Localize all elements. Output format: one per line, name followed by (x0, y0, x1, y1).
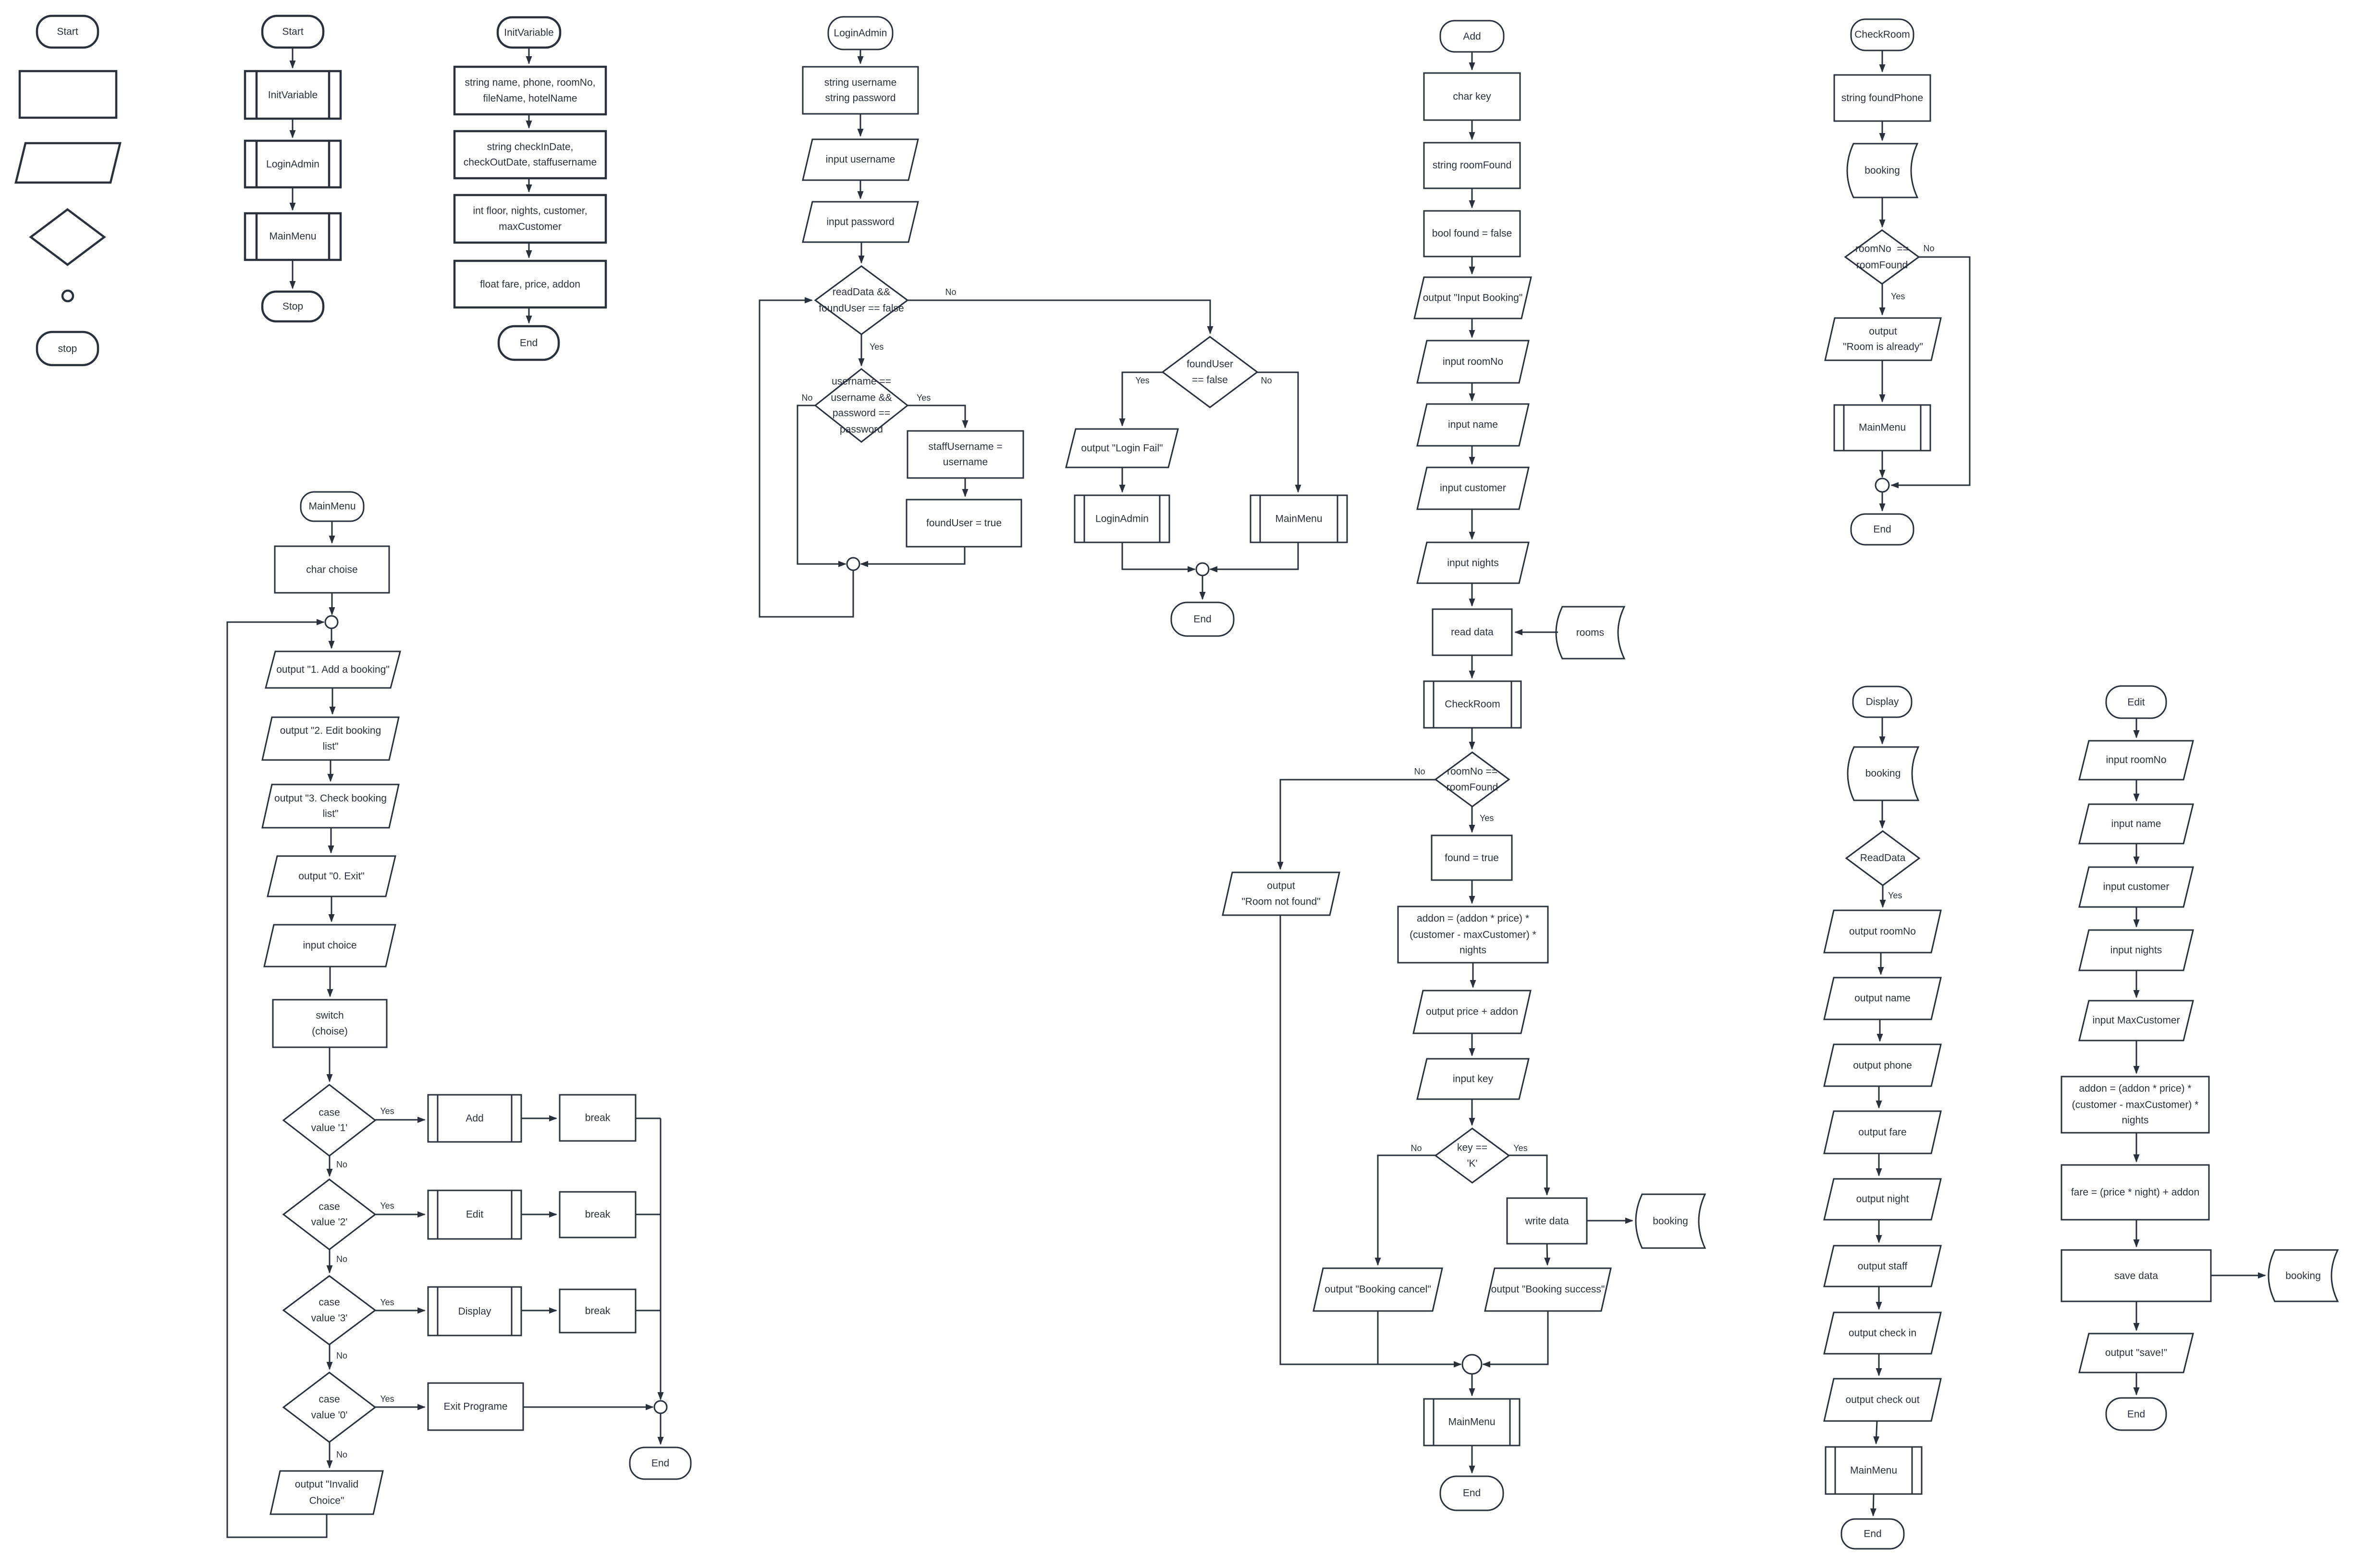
svg-text:Yes: Yes (380, 1201, 394, 1211)
svg-text:No: No (1923, 244, 1934, 253)
stored data booking (Add) (1636, 1194, 1705, 1248)
wire fare calc->save data (2136, 1220, 2137, 1247)
wire write data->output success (1547, 1244, 1547, 1265)
svg-text:Choice": Choice" (309, 1495, 344, 1507)
svg-text:fare = (price * night) + addon: fare = (price * night) + addon (2071, 1187, 2199, 1198)
svg-text:fileName, hotelName: fileName, hotelName (483, 93, 577, 104)
svg-text:output staff: output staff (1858, 1261, 1908, 1272)
wire input password->loop decision (861, 242, 862, 263)
svg-text:Edit: Edit (2127, 697, 2145, 708)
svg-text:output "3. Check booking: output "3. Check booking (274, 793, 387, 804)
svg-text:break: break (585, 1209, 611, 1220)
svg-text:Yes: Yes (1513, 1143, 1527, 1153)
svg-text:found = true: found = true (1445, 853, 1499, 864)
label Yes (key decision) (1513, 1143, 1527, 1153)
svg-text:MainMenu: MainMenu (308, 501, 356, 512)
svg-text:Add: Add (1463, 31, 1481, 42)
process float fare price addon (454, 261, 606, 307)
svg-text:input key: input key (1453, 1074, 1494, 1085)
svg-text:"Room is already": "Room is already" (1843, 342, 1923, 353)
label No (CheckRoom decision) (1923, 244, 1934, 253)
process fare = (price * night) + addon (2061, 1165, 2209, 1220)
svg-text:output roomNo: output roomNo (1849, 926, 1916, 937)
svg-text:booking: booking (1653, 1216, 1688, 1227)
label Yes (credentials decision) (917, 393, 931, 403)
wire bool found->output Input Booking (1472, 257, 1473, 274)
wire input MaxCustomer->addon calc (Edit) (2136, 1041, 2137, 1073)
wire Add->char key (1472, 52, 1473, 70)
wire checkroom junction->End (1882, 492, 1883, 511)
subroutine InitVariable (main) (245, 71, 341, 119)
decision ReadData (1846, 831, 1919, 885)
svg-text:End: End (2127, 1409, 2145, 1420)
svg-text:Yes: Yes (870, 342, 883, 352)
svg-text:list": list" (322, 808, 338, 820)
subroutine MainMenu (from Display) (1826, 1447, 1922, 1494)
process Exit Programe (428, 1383, 523, 1430)
terminator Edit (2106, 686, 2166, 718)
terminator Display (1853, 686, 1912, 717)
svg-text:Edit: Edit (466, 1209, 483, 1220)
wire LoginAdmin->declare (860, 49, 861, 63)
decision readData && foundUser == false (815, 266, 908, 334)
process int floor nights customer maxCustomer (454, 195, 606, 243)
subroutine Display (428, 1287, 521, 1335)
svg-text:write data: write data (1524, 1216, 1569, 1227)
svg-text:output: output (1267, 881, 1295, 892)
svg-text:(choise): (choise) (312, 1026, 348, 1037)
svg-text:string roomFound: string roomFound (1433, 160, 1512, 171)
stored data booking (CheckRoom) (1847, 144, 1917, 197)
output "2. Edit booking list" (262, 717, 399, 760)
input choice (264, 925, 395, 967)
svg-text:input nights: input nights (2110, 945, 2162, 956)
wire declare3->declare4 (528, 243, 530, 257)
wire CheckRoom call->room decision (1472, 728, 1473, 749)
wire InitVariable->declare strings 1 (528, 48, 530, 63)
svg-text:output "Booking success": output "Booking success" (1491, 1284, 1605, 1295)
subroutine MainMenu (from Add) (1424, 1399, 1520, 1445)
wire case'0' No->output invalid (329, 1442, 331, 1468)
wire output2->output3 (330, 760, 331, 781)
svg-text:bool found = false: bool found = false (1432, 228, 1512, 239)
junction (CheckRoom end) (1876, 478, 1889, 492)
wire switch->case '1' (329, 1047, 331, 1081)
svg-text:string username: string username (824, 77, 897, 88)
stored data rooms (1556, 607, 1624, 659)
svg-text:value '1': value '1' (311, 1123, 348, 1134)
svg-text:LoginAdmin: LoginAdmin (834, 28, 887, 39)
wire break trunk->end junction (660, 1118, 662, 1399)
svg-text:list": list" (322, 741, 338, 752)
process switch (choise) (273, 1000, 387, 1047)
svg-text:roomFound: roomFound (1447, 782, 1498, 793)
label No (loop decision) (945, 287, 956, 297)
wire output phone->output fare (1878, 1086, 1880, 1108)
wire output success->add junction (1483, 1311, 1548, 1364)
decision case value '0' (283, 1372, 375, 1442)
svg-text:string name, phone, roomNo,: string name, phone, roomNo, (465, 77, 596, 88)
terminator Stop (main) (262, 292, 323, 321)
terminator Add (1440, 21, 1504, 52)
svg-text:output "Booking cancel": output "Booking cancel" (1325, 1284, 1431, 1295)
wire room decision Yes->found true (1472, 807, 1473, 832)
wire MainMenu call->junction2 (1210, 542, 1298, 569)
svg-text:booking: booking (1865, 768, 1901, 779)
decision username == username && password == password (815, 369, 908, 442)
wire break1->trunk (636, 1118, 661, 1119)
process string foundPhone (1834, 75, 1930, 121)
wire output staff->output check in (1878, 1286, 1880, 1309)
decision case value '2' (283, 1179, 375, 1249)
wire LoginAdmin->MainMenu (292, 187, 294, 210)
wire Start->InitVariable (292, 48, 294, 68)
wire case'1' Yes->Add (375, 1119, 425, 1121)
svg-text:input roomNo: input roomNo (2106, 755, 2166, 766)
wire output4->input choice (331, 896, 332, 921)
output "Booking success" (1485, 1268, 1611, 1311)
input name (Edit) (2079, 804, 2193, 844)
process string name phone roomNo fileName hotelName (454, 67, 606, 114)
label No (case '0') (336, 1450, 347, 1459)
output "0. Exit" (268, 856, 395, 896)
process bool found = false (1424, 211, 1520, 257)
label No (credentials decision) (801, 393, 812, 403)
wire MainMenu->char choise (331, 521, 333, 543)
svg-text:Yes: Yes (917, 393, 931, 403)
terminator End (Add) (1440, 1476, 1503, 1510)
wire room decision No->output Room not found (1280, 780, 1435, 869)
wire booking->room decision (CheckRoom) (1882, 197, 1883, 227)
svg-text:No: No (801, 393, 812, 403)
terminator InitVariable (498, 17, 560, 48)
wire output roomNo->output name (1880, 953, 1882, 974)
wire addon calc->output price (1472, 963, 1474, 987)
legend decision diamond (31, 209, 104, 265)
input name (Add) (1417, 404, 1529, 446)
svg-text:output phone: output phone (1853, 1060, 1912, 1071)
wire input choice->switch (330, 967, 331, 996)
subroutine Add (428, 1095, 521, 1142)
label Yes (ReadData) (1888, 891, 1902, 900)
process break (case 1) (560, 1095, 636, 1141)
wire output Room is already->MainMenu call (1882, 360, 1883, 402)
label Yes (foundUser decision) (1135, 376, 1149, 385)
input password (803, 202, 918, 242)
svg-text:input MaxCustomer: input MaxCustomer (2092, 1015, 2180, 1026)
terminator LoginAdmin (828, 17, 893, 49)
svg-text:input password: input password (826, 217, 894, 228)
svg-text:username &&: username && (831, 392, 892, 404)
wire key No->output cancel (1378, 1155, 1435, 1265)
svg-text:No: No (336, 1160, 347, 1169)
wire input customer->input nights (1472, 509, 1473, 539)
svg-text:case: case (319, 1297, 340, 1308)
svg-text:Yes: Yes (1891, 292, 1905, 301)
svg-text:input customer: input customer (2103, 882, 2170, 893)
decision key == 'K' (1435, 1128, 1509, 1183)
svg-text:(customer - maxCustomer) *: (customer - maxCustomer) * (2072, 1100, 2199, 1111)
svg-text:maxCustomer: maxCustomer (499, 221, 562, 233)
wire CheckRoom->string foundPhone (1882, 50, 1883, 72)
svg-text:input choice: input choice (303, 940, 356, 951)
wire loop decision No->foundUser decision (908, 300, 1210, 333)
process foundUser = true (907, 500, 1021, 547)
output roomNo (1824, 910, 1941, 953)
wire case'3' No->case '0' (329, 1345, 331, 1369)
svg-text:No: No (336, 1254, 347, 1264)
wire write data->booking (1587, 1220, 1632, 1222)
svg-text:Yes: Yes (380, 1106, 394, 1116)
wire char choise->menu junction (331, 593, 333, 614)
junction (login end) (1196, 563, 1209, 576)
output "3. Check booking list" (262, 784, 399, 828)
wire add junction->MainMenu call (1472, 1374, 1473, 1396)
wire output name->output phone (1879, 1019, 1881, 1041)
wire output cancel->add junction (1377, 1311, 1379, 1364)
wire Edit->break2 (521, 1214, 556, 1215)
wire Display->booking (1882, 717, 1883, 744)
svg-text:foundUser = true: foundUser = true (926, 518, 1002, 529)
process write data (1507, 1198, 1587, 1244)
svg-text:string password: string password (825, 93, 895, 104)
wire output save!->End (Edit) (2136, 1372, 2137, 1395)
decision case value '1' (283, 1085, 375, 1156)
wire output Login Fail->LoginAdmin call (1122, 467, 1123, 492)
output "Input Booking" (1414, 277, 1531, 318)
svg-text:output "save!": output "save!" (2105, 1347, 2167, 1359)
svg-text:case: case (319, 1201, 340, 1213)
label No (case '2') (336, 1254, 347, 1264)
stored data booking (Display) (1848, 747, 1918, 800)
wire ReadData Yes->output roomNo (1882, 885, 1884, 907)
output price + addon (1413, 991, 1531, 1033)
input customer (Add) (1417, 467, 1529, 509)
svg-text:char key: char key (1453, 91, 1491, 102)
decision roomNo == roomFound (CheckRoom) (1845, 230, 1919, 284)
svg-text:nights: nights (2122, 1115, 2148, 1126)
wire input nights->input MaxCustomer (2136, 970, 2137, 997)
svg-text:MainMenu: MainMenu (1448, 1417, 1495, 1428)
svg-text:End: End (1873, 524, 1891, 535)
subroutine LoginAdmin (main) (245, 141, 341, 187)
wire input username->input password (860, 180, 861, 198)
svg-text:input name: input name (1448, 419, 1498, 430)
wire booking->ReadData decision (1882, 800, 1883, 828)
terminator End (InitVariable) (499, 326, 559, 360)
decision roomNo == roomFound (Add) (1435, 752, 1509, 807)
output staff (1824, 1246, 1941, 1286)
output "Room is already" (1825, 318, 1941, 360)
wire junction2->End (1202, 576, 1203, 599)
svg-text:value '3': value '3' (311, 1313, 348, 1324)
svg-text:MainMenu: MainMenu (269, 231, 316, 242)
terminator Start (main) (262, 16, 323, 48)
label Yes (room decision) (1480, 813, 1494, 823)
svg-text:foundUser == false: foundUser == false (819, 303, 904, 314)
process string roomFound (1424, 143, 1520, 188)
svg-text:roomFound: roomFound (1856, 260, 1908, 271)
wire input name->input customer (Edit) (2136, 844, 2137, 864)
wire key Yes->write data (1509, 1155, 1547, 1195)
svg-text:Display: Display (458, 1306, 491, 1317)
svg-text:checkOutDate, staffusername: checkOutDate, staffusername (464, 157, 597, 168)
decision foundUser == false (1163, 337, 1257, 407)
legend connector circle (62, 291, 73, 301)
wire output3->output4 (331, 828, 332, 853)
wire foundUser No->MainMenu call (1257, 372, 1298, 492)
wire found true->addon calc (1472, 880, 1473, 903)
svg-text:break: break (585, 1306, 611, 1317)
output "Booking cancel" (1313, 1268, 1442, 1311)
input roomNo (Edit) (2079, 741, 2193, 780)
wire declare->input username (860, 114, 861, 136)
label Yes (case '3') (380, 1298, 394, 1307)
wire break3->trunk (636, 1310, 661, 1311)
stored data booking (Edit) (2269, 1250, 2338, 1301)
svg-text:case: case (319, 1107, 340, 1118)
process found = true (1432, 835, 1512, 880)
svg-text:CheckRoom: CheckRoom (1445, 699, 1500, 710)
svg-text:Yes: Yes (1135, 376, 1149, 385)
svg-text:output "Invalid: output "Invalid (295, 1479, 358, 1490)
svg-text:password: password (840, 424, 883, 435)
svg-text:break: break (585, 1113, 611, 1124)
svg-text:Yes: Yes (380, 1394, 394, 1404)
label No (foundUser decision) (1261, 376, 1272, 385)
output check in (1824, 1312, 1941, 1354)
wire Add->break1 (521, 1118, 556, 1119)
label Yes (CheckRoom decision) (1891, 292, 1905, 301)
wire InitVariable->LoginAdmin (292, 119, 294, 137)
svg-text:output "0. Exit": output "0. Exit" (298, 871, 364, 882)
output "Login Fail" (1066, 429, 1178, 467)
wire string foundPhone->booking (1882, 121, 1883, 140)
svg-text:output check out: output check out (1845, 1395, 1919, 1406)
subroutine CheckRoom (call) (1424, 681, 1521, 728)
output fare (1824, 1111, 1941, 1153)
svg-text:End: End (651, 1458, 669, 1469)
junction (login loop) (847, 558, 859, 570)
label No (case '1') (336, 1160, 347, 1169)
svg-text:Stop: Stop (282, 301, 303, 312)
svg-text:read data: read data (1451, 627, 1494, 638)
svg-text:output "2. Edit booking: output "2. Edit booking (280, 725, 381, 736)
svg-text:ReadData: ReadData (1860, 853, 1906, 864)
svg-text:output "Login Fail": output "Login Fail" (1081, 443, 1163, 454)
svg-text:value '2': value '2' (311, 1217, 348, 1228)
wire junction->loop back to decision (760, 300, 853, 617)
terminator CheckRoom (1851, 19, 1913, 50)
wire output Room not found->add junction (1280, 915, 1461, 1364)
svg-text:readData &&: readData && (833, 287, 890, 298)
label Yes (case '2') (380, 1201, 394, 1211)
svg-text:No: No (1261, 376, 1272, 385)
legend process rectangle (20, 71, 116, 118)
wire input roomNo->input name (1472, 383, 1473, 401)
legend input/output parallelogram (16, 143, 120, 183)
svg-text:addon = (addon * price) *: addon = (addon * price) * (2079, 1083, 2191, 1094)
input nights (Edit) (2079, 930, 2193, 970)
label No (key decision) (1411, 1143, 1422, 1153)
wire char key->string roomFound (1472, 120, 1473, 139)
wire input key->key decision (1472, 1099, 1473, 1125)
wire MainMenu call->End (Display) (1873, 1494, 1874, 1516)
terminator End (Display) (1841, 1519, 1904, 1549)
wire output1->output2 (332, 688, 333, 714)
terminator MainMenu (301, 492, 364, 521)
wire MainMenu->Stop (292, 260, 294, 288)
input username (803, 139, 918, 180)
process string username string password (803, 67, 918, 114)
subroutine MainMenu (main) (245, 213, 341, 260)
wire end junction->End (660, 1413, 662, 1444)
svg-text:End: End (520, 338, 538, 349)
wire staffUsername->foundUser true (965, 478, 966, 496)
wire input customer->input nights (Edit) (2136, 907, 2137, 927)
wire case'3' Yes->Display (375, 1310, 425, 1311)
svg-text:No: No (1411, 1143, 1422, 1153)
svg-text:InitVariable: InitVariable (504, 27, 554, 38)
wire MainMenu call->End (Add) (1472, 1445, 1473, 1473)
output check out (1824, 1379, 1941, 1421)
svg-text:LoginAdmin: LoginAdmin (266, 159, 319, 170)
wire menu junction->output 1 (331, 628, 332, 648)
label Yes (case '0') (380, 1394, 394, 1404)
wire loop decision Yes->credentials decision (861, 334, 862, 366)
junction (Add end) (1462, 1355, 1482, 1374)
svg-text:"Room not found": "Room not found" (1241, 896, 1320, 907)
wire output night->output staff (1878, 1220, 1880, 1242)
svg-text:char choise: char choise (306, 564, 357, 576)
svg-text:rooms: rooms (1576, 627, 1604, 638)
terminator End (CheckRoom) (1851, 514, 1913, 545)
label Yes (case '1') (380, 1106, 394, 1116)
terminator End (MainMenu) (630, 1447, 691, 1479)
svg-text:booking: booking (1864, 165, 1900, 176)
input nights (Add) (1417, 542, 1529, 583)
svg-text:switch: switch (316, 1010, 343, 1021)
svg-text:string foundPhone: string foundPhone (1841, 93, 1923, 104)
svg-text:End: End (1864, 1529, 1881, 1540)
process break (case 3) (560, 1289, 636, 1333)
svg-text:case: case (319, 1394, 340, 1405)
svg-text:nights: nights (1460, 945, 1486, 956)
svg-text:End: End (1193, 614, 1211, 625)
input roomNo (Add) (1417, 341, 1529, 383)
wire addon calc->fare calc (2136, 1133, 2137, 1162)
wire declare2->declare3 (528, 178, 530, 192)
svg-text:No: No (336, 1450, 347, 1459)
legend terminator stop (37, 332, 98, 365)
svg-text:save data: save data (2114, 1271, 2158, 1282)
svg-text:string checkInDate,: string checkInDate, (487, 142, 574, 153)
output night (1824, 1179, 1941, 1220)
svg-text:username: username (943, 457, 988, 468)
wire case'2' No->case '3' (329, 1249, 331, 1273)
process save data (2061, 1250, 2211, 1301)
svg-text:Start: Start (57, 26, 78, 37)
svg-text:output "1. Add a booking": output "1. Add a booking" (276, 664, 390, 675)
wire input roomNo->input name (Edit) (2136, 780, 2137, 801)
svg-text:No: No (336, 1351, 347, 1360)
process char choise (275, 546, 389, 593)
wire credentials No->junction (797, 405, 846, 564)
wire output price->input key (1472, 1033, 1473, 1055)
process addon calculation (Add) (1398, 906, 1548, 963)
svg-text:output price + addon: output price + addon (1426, 1006, 1518, 1017)
svg-text:(customer - maxCustomer) *: (customer - maxCustomer) * (1410, 930, 1536, 941)
